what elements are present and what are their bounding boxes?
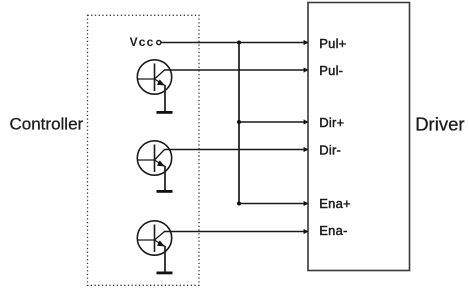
svg-text:Driver: Driver [415, 113, 464, 134]
svg-text:Ena-: Ena- [319, 223, 347, 238]
svg-text:Ena+: Ena+ [319, 196, 351, 211]
svg-text:Dir+: Dir+ [319, 115, 344, 130]
svg-text:Vcc: Vcc [130, 35, 155, 49]
svg-text:Pul+: Pul+ [319, 36, 346, 51]
svg-text:Dir-: Dir- [319, 143, 341, 158]
svg-text:Controller: Controller [10, 114, 84, 133]
svg-text:Pul-: Pul- [319, 63, 343, 78]
